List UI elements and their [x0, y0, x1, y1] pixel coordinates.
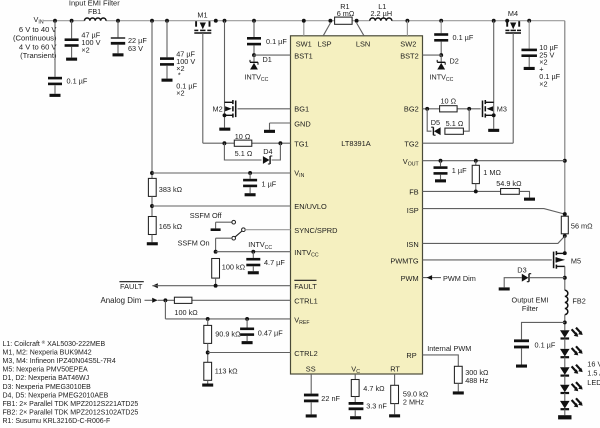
wire GND pin [270, 122, 291, 124]
wire VREF [165, 318, 290, 320]
capacitor 22uF 63V [116, 19, 120, 23]
wire VIN-rail to 383k [150, 19, 154, 23]
svg-text:6 V to 40 V: 6 V to 40 V [19, 25, 58, 34]
wire EN/UVLO [151, 196, 153, 216]
svg-text:FB2: 2× Parallel TDK MPZ2012S1: FB2: 2× Parallel TDK MPZ2012S102ATD25 [3, 410, 139, 417]
svg-text:1 µF: 1 µF [262, 179, 277, 188]
wire BG2 [423, 108, 481, 110]
svg-text:Filter: Filter [522, 304, 539, 313]
svg-text:M3, M4: Infineon IPZ40N04S5L-7: M3, M4: Infineon IPZ40N04S5L-7R4 [3, 358, 116, 365]
svg-text:383 kΩ: 383 kΩ [159, 185, 183, 194]
resistor 383k [148, 178, 156, 196]
wire VIN top rail [44, 20, 85, 22]
svg-text:FAULT: FAULT [120, 282, 143, 291]
diode D1 [253, 55, 255, 62]
wire SW1 drop [303, 21, 305, 36]
wire BST1 [252, 53, 256, 57]
capacitor 4.7uF INTVCC [251, 250, 255, 254]
resistor 165k [148, 217, 156, 235]
svg-text:5.1 Ω: 5.1 Ω [446, 119, 464, 128]
ground 47uF mid [162, 79, 173, 82]
wire TG1 bypass loop [224, 143, 261, 160]
ferrite bead FB1 [85, 18, 107, 21]
capacitor 10uF out [527, 19, 531, 23]
ground 22nF [306, 414, 317, 417]
resistor 10R TG1 [234, 140, 252, 146]
svg-text:PWM: PWM [401, 274, 419, 283]
resistor R1 6mR [328, 19, 332, 23]
wire BG2 bypass loop [427, 109, 431, 131]
resistor 113k [204, 362, 212, 380]
ground 54.9k [524, 198, 535, 201]
LED D14 [560, 401, 570, 409]
svg-text:6 mΩ: 6 mΩ [337, 9, 355, 18]
svg-text:(Continuous): (Continuous) [13, 34, 57, 43]
LED D13 [560, 385, 570, 393]
svg-text:SS: SS [306, 364, 316, 373]
IC U1 LT8391A body [291, 36, 423, 374]
svg-text:Analog Dim: Analog Dim [101, 296, 142, 305]
pin label FAULT pin [294, 279, 316, 281]
svg-text:BST2: BST2 [400, 51, 418, 60]
capacitor 22nF SS [304, 394, 319, 397]
ground 1uF VOUT [435, 179, 446, 182]
resistor 54.9k [501, 189, 520, 195]
node SW1 dot a [214, 19, 218, 23]
resistor 4.7k [351, 380, 359, 397]
svg-text:D3: Nexperia PMEG3010EB: D3: Nexperia PMEG3010EB [3, 384, 92, 391]
wire M1 gate to TG1 [202, 33, 204, 143]
svg-text:BST1: BST1 [294, 51, 312, 60]
wire 300k gnd [457, 383, 459, 391]
ground SSFM Off [211, 228, 221, 231]
ground input 0.1uF [50, 94, 61, 97]
svg-text:SSFM Off: SSFM Off [190, 211, 223, 220]
ground 3.3nF [350, 416, 361, 419]
ground 113k [202, 384, 213, 387]
svg-text:90.9 kΩ: 90.9 kΩ [215, 329, 241, 338]
svg-text:2 MHz: 2 MHz [403, 397, 424, 406]
wire SSFM Off throw [216, 221, 232, 223]
ground 47uF [66, 58, 77, 61]
wire FAULT [152, 283, 158, 288]
wire INTVCC pin [214, 250, 218, 254]
svg-text:LSP: LSP [318, 39, 332, 48]
svg-text:PWM Dim: PWM Dim [443, 274, 476, 283]
svg-text:LT8391A: LT8391A [341, 139, 371, 148]
svg-text:FB2: FB2 [572, 296, 585, 305]
ground 4.7uF [248, 271, 259, 274]
wire LED to gnd [564, 409, 566, 415]
wire M5 source rail [564, 266, 566, 290]
svg-text:54.9 kΩ: 54.9 kΩ [496, 179, 522, 188]
ground 22uF [113, 53, 124, 56]
svg-text:113 kΩ: 113 kΩ [215, 366, 238, 375]
svg-text:0.1 µF: 0.1 µF [67, 77, 88, 86]
svg-text:D1, D2: Nexperia BAT46WJ: D1, D2: Nexperia BAT46WJ [3, 375, 90, 382]
svg-text:10 Ω: 10 Ω [440, 97, 456, 106]
svg-text:M1: M1 [197, 11, 207, 20]
svg-text:16 V: 16 V [587, 359, 600, 368]
wire 113k gnd [207, 380, 209, 383]
svg-text:0.1 µF: 0.1 µF [266, 37, 287, 46]
inductor L1 [370, 18, 392, 21]
svg-text:1.5 A: 1.5 A [587, 369, 600, 378]
svg-text:M1, M2: Nexperia BUK9M42: M1, M2: Nexperia BUK9M42 [3, 349, 92, 356]
svg-text:BG2: BG2 [404, 105, 419, 114]
svg-text:Output EMI: Output EMI [512, 295, 549, 304]
wire D3 anode [504, 278, 522, 288]
wire LED11-12 [564, 357, 566, 367]
svg-text:1 MΩ: 1 MΩ [483, 168, 501, 177]
ground 1uF VIN [245, 193, 256, 196]
svg-text:R1: Susumu KRL3216D-C-R006-F: R1: Susumu KRL3216D-C-R006-F [3, 418, 111, 425]
svg-text:ISN: ISN [406, 240, 418, 249]
capacitor 0.1uF out [522, 322, 565, 339]
wire LSN kelvin [357, 23, 364, 36]
svg-text:RT: RT [390, 364, 400, 373]
svg-text:(Transient): (Transient) [20, 51, 57, 60]
wire Analog Dim arrow [145, 299, 153, 301]
svg-text:TG2: TG2 [404, 139, 418, 148]
svg-text:100 kΩ: 100 kΩ [222, 262, 246, 271]
wire 165k to gnd [151, 235, 153, 243]
svg-text:4.7 µF: 4.7 µF [264, 258, 285, 267]
wire LSP kelvin [323, 23, 330, 36]
wire RT gnd [394, 404, 396, 415]
svg-text:BG1: BG1 [294, 105, 309, 114]
svg-text:D5: D5 [431, 118, 440, 127]
ground M3 source [488, 129, 499, 132]
transistor M4 [506, 21, 508, 27]
svg-text:D4, D5: Nexperia PMEG2010AEB: D4, D5: Nexperia PMEG2010AEB [3, 392, 109, 399]
label FAULT out [119, 281, 143, 283]
wire M3 drain drop [492, 19, 496, 23]
wire BST2 [439, 53, 443, 57]
svg-text:D1: D1 [263, 55, 272, 64]
wire rail 56mR to M5 [564, 236, 566, 253]
svg-text:1 µF: 1 µF [452, 166, 467, 175]
svg-text:4.7 kΩ: 4.7 kΩ [363, 384, 385, 393]
diode D2 [440, 55, 442, 62]
wire VOUT [423, 160, 565, 162]
ground 0.47uF [242, 341, 253, 344]
resistor 300k [454, 366, 462, 383]
svg-text:0.1 µF: 0.1 µF [453, 33, 474, 42]
ground 165k [147, 242, 158, 245]
wire ISN [423, 236, 565, 243]
svg-text:63 V: 63 V [128, 44, 143, 53]
ferrite bead FB2 [565, 290, 568, 314]
resistor 100k CTRL1 [174, 297, 192, 303]
svg-text:CTRL2: CTRL2 [294, 349, 317, 358]
capacitor 0.1uF BST1 [252, 19, 256, 23]
svg-text:SW1: SW1 [296, 39, 312, 48]
wire RT [394, 374, 396, 385]
svg-text:488 Hz: 488 Hz [465, 376, 488, 385]
capacitor 3.3nF VC [354, 397, 356, 403]
capacitor 1uF VIN [248, 171, 252, 175]
svg-text:M2: M2 [213, 105, 223, 114]
wire TG1 [203, 142, 291, 144]
wire LED13-14 [564, 393, 566, 401]
wire FB [423, 190, 501, 192]
transistor M3 [485, 101, 493, 103]
wire VC [354, 374, 356, 380]
svg-text:M5: M5 [571, 256, 581, 265]
ground 10uF [524, 67, 535, 70]
resistor 100k pullup [212, 259, 220, 279]
wire TG2 [423, 142, 514, 144]
svg-text:CTRL1: CTRL1 [294, 297, 317, 306]
svg-text:10 Ω: 10 Ω [235, 132, 251, 141]
wire FB2 to LED [564, 315, 566, 331]
svg-text:D2: D2 [450, 57, 459, 66]
svg-text:EN/UVLO: EN/UVLO [294, 202, 327, 211]
wire SSFM On throw [216, 237, 232, 239]
svg-text:RP: RP [406, 351, 416, 360]
wire LED10-11 [564, 339, 566, 349]
resistor 10R BG2 [440, 106, 458, 112]
svg-text:×2: ×2 [81, 45, 89, 54]
diode D4 [263, 156, 270, 164]
svg-text:×2: ×2 [176, 88, 184, 97]
svg-text:SYNC/SPRD: SYNC/SPRD [294, 226, 337, 235]
ground 300k [453, 391, 464, 394]
wire PWM [423, 277, 442, 279]
wire SS [310, 374, 312, 394]
wire AnalogDim to VREF [164, 300, 166, 319]
svg-text:Internal PWM: Internal PWM [427, 344, 471, 353]
LED D11 [560, 349, 570, 357]
capacitor 47uF+0.1uF mid [165, 19, 169, 23]
transistor M5 [556, 252, 564, 254]
svg-text:×2: ×2 [539, 79, 547, 88]
svg-text:3.3 nF: 3.3 nF [366, 401, 387, 410]
svg-text:*: * [178, 71, 181, 80]
resistor 59k [391, 385, 399, 403]
svg-text:100 kΩ: 100 kΩ [174, 308, 198, 317]
LED D10 [560, 330, 570, 338]
wire CTRL2 [207, 343, 209, 362]
capacitor 0.47uF VREF [246, 319, 248, 328]
svg-text:L1: Coilcraft ® XAL5030-222MEB: L1: Coilcraft ® XAL5030-222MEB [3, 339, 106, 348]
diode D5 [434, 127, 441, 135]
wire PWMTG [423, 259, 552, 261]
svg-text:M3: M3 [497, 105, 507, 114]
resistor 5.1R BG2 [445, 128, 464, 134]
capacitor 0.1uF BST2 [439, 19, 443, 23]
transistor M2 [224, 21, 226, 128]
wire VIN pin [150, 171, 154, 175]
ground 59k [389, 414, 400, 417]
wire CTRL1 [158, 299, 175, 301]
svg-text:0.47 µF: 0.47 µF [258, 328, 283, 337]
node SW1 dot b [223, 19, 227, 23]
capacitor 47uF input [70, 19, 74, 23]
svg-text:2.2 µH: 2.2 µH [370, 9, 392, 18]
svg-text:165 kΩ: 165 kΩ [159, 222, 183, 231]
svg-text:FB1: 2× Parallel TDK MPZ2012S2: FB1: 2× Parallel TDK MPZ2012S221ATD25 [3, 401, 139, 408]
capacitor 1uF VOUT [440, 161, 442, 167]
wire 100k to FAULT [215, 278, 217, 286]
svg-text:FB1: FB1 [88, 7, 101, 16]
svg-text:0.1 µF: 0.1 µF [535, 340, 556, 349]
switch S1 SSFM [232, 220, 236, 224]
svg-text:56 mΩ: 56 mΩ [571, 222, 593, 231]
svg-text:FAULT: FAULT [294, 282, 317, 291]
svg-text:M4: M4 [508, 9, 518, 18]
svg-text:TG1: TG1 [294, 139, 308, 148]
svg-text:ISP: ISP [407, 206, 419, 215]
wire LED12-13 [564, 376, 566, 385]
transistor M1 [195, 21, 197, 27]
wire SW2 drop [405, 19, 409, 23]
diode D3 [522, 274, 529, 282]
svg-text:5.1 Ω: 5.1 Ω [235, 149, 253, 158]
svg-text:LED: LED [587, 378, 600, 387]
svg-text:SW2: SW2 [400, 39, 416, 48]
wire 54.9k to gnd [519, 191, 529, 197]
resistor 1M [475, 161, 477, 166]
ground M2 source [219, 128, 230, 131]
svg-text:SSFM On: SSFM On [178, 239, 210, 248]
resistor 56mR [561, 216, 568, 234]
svg-text:D4: D4 [263, 147, 272, 156]
wire RP [423, 355, 459, 366]
svg-text:D3: D3 [517, 266, 526, 275]
LED D12 [560, 367, 570, 375]
wire D3 cathode [530, 277, 565, 279]
wire SYNC/SPRD [245, 229, 290, 231]
svg-text:PWMTG: PWMTG [390, 257, 419, 266]
capacitor 0.1uF input [53, 19, 57, 23]
svg-text:4 V to 60 V: 4 V to 60 V [19, 42, 58, 51]
ground D3 [499, 287, 510, 290]
svg-text:GND: GND [294, 119, 310, 128]
svg-text:22 nF: 22 nF [321, 394, 340, 403]
ground LED string [558, 415, 571, 419]
ground 0.1uF out [516, 365, 527, 368]
ground GND pin [264, 130, 275, 133]
resistor 90.9k [207, 319, 209, 326]
wire ISP [423, 209, 565, 215]
node VOUT rail dot [563, 159, 567, 163]
wire BG1 [238, 108, 291, 110]
svg-text:M5: Nexperia PMV50EPEA: M5: Nexperia PMV50EPEA [3, 367, 89, 374]
svg-text:FB: FB [409, 188, 419, 197]
svg-text:LSN: LSN [356, 39, 370, 48]
wire output rail [564, 21, 566, 214]
